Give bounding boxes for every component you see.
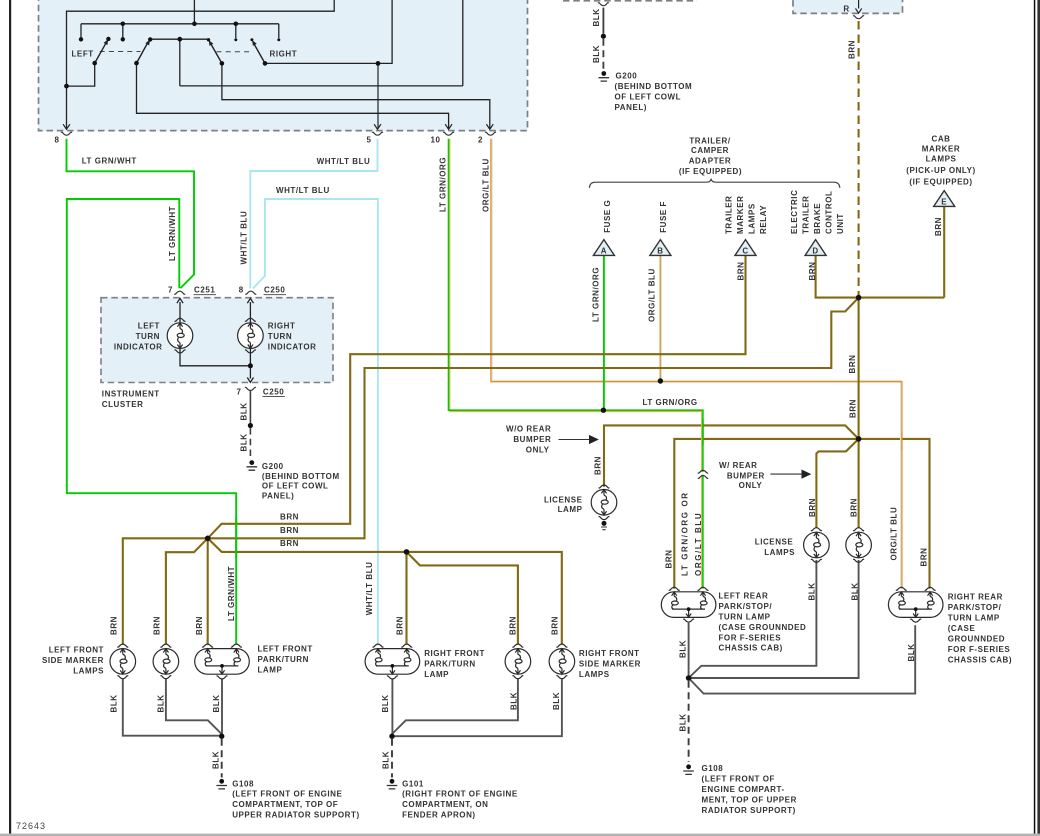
multifunction turn signal switch box (top, cut off) xyxy=(39,0,528,131)
svg-text:INSTRUMENT: INSTRUMENT xyxy=(102,389,160,398)
svg-text:LICENSE: LICENSE xyxy=(544,496,583,505)
switch arm SW1 xyxy=(95,43,106,63)
svg-text:ORG/LT BLU: ORG/LT BLU xyxy=(648,268,657,322)
BRN wire: junction to left front side marker 1 xyxy=(123,538,208,644)
C250 pin 8 connector (cap opening down) xyxy=(245,291,256,294)
BLK dashed to G101 xyxy=(391,739,393,778)
svg-text:E: E xyxy=(941,197,947,206)
svg-text:RIGHT: RIGHT xyxy=(268,322,296,331)
svg-text:ONLY: ONLY xyxy=(526,446,550,455)
svg-text:W/O REAR: W/O REAR xyxy=(506,424,551,433)
svg-text:LT GRN/ORG: LT GRN/ORG xyxy=(439,157,448,212)
svg-text:MARKER: MARKER xyxy=(922,145,960,154)
svg-text:(LEFT FRONT OF ENGINE: (LEFT FRONT OF ENGINE xyxy=(232,790,342,799)
svg-text:ORG/LT BLU: ORG/LT BLU xyxy=(694,512,703,576)
lamp: left front side marker 2 xyxy=(153,644,179,679)
lamp: right front side marker 1 xyxy=(505,644,531,679)
fuse G triangle A xyxy=(593,240,614,256)
svg-text:BRN: BRN xyxy=(551,616,560,635)
svg-text:LT GRN/ORG OR: LT GRN/ORG OR xyxy=(681,491,690,576)
junction dot: G101 xyxy=(389,734,394,739)
electric trailer brake control unit triangle D xyxy=(805,240,826,256)
svg-text:C: C xyxy=(742,246,748,255)
svg-text:RELAY: RELAY xyxy=(759,205,768,234)
svg-text:5: 5 xyxy=(367,136,372,145)
svg-text:ORG/LT BLU: ORG/LT BLU xyxy=(890,507,899,561)
BLK wire: right side marker 1 ground run xyxy=(392,679,518,736)
svg-text:RIGHT FRONT: RIGHT FRONT xyxy=(579,649,640,658)
ground G101 xyxy=(387,779,398,789)
C251 pin 7 connector (cap opening down) xyxy=(174,291,185,294)
svg-text:G200: G200 xyxy=(262,462,284,471)
svg-text:TURN LAMP: TURN LAMP xyxy=(719,613,771,622)
svg-text:(LEFT FRONT OF: (LEFT FRONT OF xyxy=(702,775,775,784)
svg-text:BRN: BRN xyxy=(808,498,817,517)
svg-text:(CASE: (CASE xyxy=(948,624,976,633)
svg-text:G200: G200 xyxy=(616,72,638,81)
svg-text:LAMPS: LAMPS xyxy=(764,548,795,557)
wire: contact bus line B xyxy=(81,0,279,38)
ground G108 left xyxy=(216,779,227,789)
wire: SW1 pivot to pin8 feed xyxy=(67,63,95,86)
svg-text:WHT/LT BLU: WHT/LT BLU xyxy=(276,186,330,195)
ground G200 top xyxy=(599,71,610,81)
BLK dashed to G108 right xyxy=(688,681,690,762)
svg-text:FOR F-SERIES: FOR F-SERIES xyxy=(948,645,1011,654)
svg-text:BRN: BRN xyxy=(280,526,299,535)
svg-text:LT GRN/WHT: LT GRN/WHT xyxy=(227,566,236,621)
svg-text:LAMPS: LAMPS xyxy=(926,155,957,164)
orange/cyan wire pin2 to right rear lamp (ORG/LT BLU) xyxy=(492,139,900,589)
junction dot: LT GRN/ORG tap xyxy=(601,408,606,413)
pivot dots xyxy=(92,61,97,66)
svg-text:BRN: BRN xyxy=(848,355,857,374)
green branch wire to left front park lamp (LT GRN/WHT) xyxy=(67,199,236,644)
svg-text:(BEHIND BOTTOM: (BEHIND BOTTOM xyxy=(615,82,693,91)
rotated wire labels xyxy=(110,8,944,769)
svg-text:BRN: BRN xyxy=(396,616,405,635)
svg-text:TRAILER: TRAILER xyxy=(725,195,734,234)
svg-text:B: B xyxy=(657,246,663,255)
svg-text:LAMPS: LAMPS xyxy=(579,670,610,679)
lamp: license lamps pair right xyxy=(846,528,872,563)
svg-text:(RIGHT FRONT OF ENGINE: (RIGHT FRONT OF ENGINE xyxy=(402,790,518,799)
wire: y39 link between SW2/SW3 contacts xyxy=(150,0,463,86)
junction dot: G108 left xyxy=(219,734,224,739)
G200 drop from cluster C250-7 xyxy=(249,391,251,423)
svg-text:10: 10 xyxy=(431,136,441,145)
svg-text:BRN: BRN xyxy=(934,217,943,236)
svg-text:BRN: BRN xyxy=(849,399,858,418)
green wire pin10 to left rear lamp (LT GRN/ORG) xyxy=(449,139,703,589)
BRN wire: right junction down to right front park/turn lamp xyxy=(405,552,407,645)
svg-text:R: R xyxy=(843,5,849,14)
svg-text:LEFT FRONT: LEFT FRONT xyxy=(258,645,313,654)
svg-text:BLK: BLK xyxy=(679,713,688,731)
w/o rear bumper pointer arrow xyxy=(559,439,591,441)
junction dot: BRN right front xyxy=(404,549,410,555)
svg-text:PARK/STOP/: PARK/STOP/ xyxy=(948,603,1002,612)
svg-text:LT GRN/WHT: LT GRN/WHT xyxy=(82,157,137,166)
svg-text:UNIT: UNIT xyxy=(836,213,845,234)
svg-text:BLK: BLK xyxy=(851,582,860,600)
pin arrowheads at box bottom xyxy=(63,124,70,129)
svg-text:RIGHT REAR: RIGHT REAR xyxy=(948,593,1003,602)
svg-text:LAMP: LAMP xyxy=(258,665,283,674)
pin 8 connector xyxy=(61,132,72,135)
svg-text:GROUNNDED: GROUNNDED xyxy=(948,635,1005,644)
svg-text:LT GRN/ORG: LT GRN/ORG xyxy=(591,267,600,322)
svg-text:BLK: BLK xyxy=(592,8,601,26)
cut-off box bottom edge above G200 xyxy=(563,0,697,2)
svg-text:D: D xyxy=(812,246,818,255)
svg-text:BRN: BRN xyxy=(665,550,674,569)
C251/C250 underlines xyxy=(194,295,286,397)
svg-text:FUSE F: FUSE F xyxy=(659,201,668,233)
svg-text:PARK/TURN: PARK/TURN xyxy=(424,660,475,669)
svg-text:INDICATOR: INDICATOR xyxy=(114,342,163,351)
svg-text:BLK: BLK xyxy=(510,692,519,710)
svg-text:G101: G101 xyxy=(402,779,424,788)
junction dot: J1 xyxy=(856,295,862,301)
svg-text:BRN: BRN xyxy=(850,498,859,517)
svg-text:G108: G108 xyxy=(702,764,724,773)
svg-text:BUMPER: BUMPER xyxy=(727,471,765,480)
svg-text:BLK: BLK xyxy=(157,694,166,712)
BLK dashed to G108 left xyxy=(221,739,223,778)
R relay box (top right, cut off) xyxy=(793,0,903,13)
junction dot: G108 right xyxy=(686,675,692,681)
svg-text:BLK: BLK xyxy=(240,433,249,451)
svg-text:MENT, TOP OF UPPER: MENT, TOP OF UPPER xyxy=(702,795,797,804)
svg-text:W/ REAR: W/ REAR xyxy=(719,461,758,470)
svg-text:8: 8 xyxy=(239,286,244,295)
bus junction dots xyxy=(121,22,126,27)
brace trailer/camper adapter xyxy=(589,179,839,188)
svg-text:7: 7 xyxy=(168,286,173,295)
BLK wire: left rear lamp ground xyxy=(688,623,690,678)
contact dots xyxy=(79,37,83,41)
ground G108 right xyxy=(683,764,694,774)
R box pin connector xyxy=(853,16,864,19)
BRN wire: J2 to left license lamp (w/ rear bumper) xyxy=(816,439,858,528)
svg-text:CLUSTER: CLUSTER xyxy=(102,400,144,409)
svg-text:LEFT: LEFT xyxy=(72,49,94,58)
svg-text:2: 2 xyxy=(478,136,483,145)
instrument cluster internal wires xyxy=(177,298,183,322)
svg-text:BLK: BLK xyxy=(212,694,221,712)
license lamp w/o bumper case ground xyxy=(602,521,607,526)
svg-text:(IF EQUIPPED): (IF EQUIPPED) xyxy=(679,167,742,176)
BRN wire: trailer marker relay C to front lamps junction xyxy=(208,255,746,538)
fuse F triangle B xyxy=(650,240,671,256)
svg-text:TURN LAMP: TURN LAMP xyxy=(948,614,1000,623)
svg-text:BUMPER: BUMPER xyxy=(513,435,551,444)
switch gang dashed links xyxy=(100,51,253,53)
svg-text:7: 7 xyxy=(237,388,242,397)
svg-text:BRN: BRN xyxy=(509,616,518,635)
svg-text:SIDE MARKER: SIDE MARKER xyxy=(579,660,641,669)
svg-text:MARKER: MARKER xyxy=(736,196,745,234)
svg-text:LEFT REAR: LEFT REAR xyxy=(719,592,769,601)
BLK wire: right rear lamp ground run xyxy=(689,625,916,693)
BLK wire: license lamp pair grounds to rear junction xyxy=(689,560,817,678)
page frame xyxy=(9,0,11,834)
svg-text:BLK: BLK xyxy=(381,694,390,712)
svg-text:CHASSIS CAB): CHASSIS CAB) xyxy=(719,644,783,653)
svg-text:LAMPS: LAMPS xyxy=(73,666,104,675)
svg-text:(PICK-UP ONLY): (PICK-UP ONLY) xyxy=(906,166,976,175)
wire: switch feed bus top xyxy=(67,0,335,128)
svg-text:BRN: BRN xyxy=(280,513,299,522)
switch arm SW4 xyxy=(254,44,265,63)
lamp: left turn indicator xyxy=(167,318,193,353)
cab marker lamps triangle E xyxy=(934,191,955,207)
R box internal wire and arrow xyxy=(856,0,862,13)
inline connector on rear feed wire xyxy=(700,472,707,475)
fuse G wire down (LT GRN/ORG) xyxy=(603,255,605,410)
svg-text:BRN: BRN xyxy=(737,262,746,281)
green overlay where rear feed crosses BRN lines xyxy=(701,419,703,445)
BRN wire: J1 jog down to front lamps junction xyxy=(208,298,859,539)
wire: SW4 pivot to pin 5 xyxy=(265,0,392,63)
BRN wire: J2 down to right license lamp xyxy=(858,439,860,528)
pin connector arcs (cup opening up) xyxy=(61,3,864,391)
w/ rear bumper pointer arrow xyxy=(770,473,802,475)
svg-text:FUSE G: FUSE G xyxy=(603,200,612,233)
svg-text:ENGINE COMPART-: ENGINE COMPART- xyxy=(702,785,785,794)
svg-text:LAMPS: LAMPS xyxy=(748,203,757,234)
svg-text:72643: 72643 xyxy=(16,821,46,831)
junction dot: J2 xyxy=(856,436,862,442)
svg-text:WHT/LT BLU: WHT/LT BLU xyxy=(365,562,374,616)
svg-text:LICENSE: LICENSE xyxy=(755,537,794,546)
svg-text:LAMP: LAMP xyxy=(424,670,449,679)
svg-text:(CASE GROUNNDED: (CASE GROUNNDED xyxy=(719,623,807,632)
BLK wire: left side marker 1 ground run xyxy=(123,679,222,736)
svg-text:BLK: BLK xyxy=(808,582,817,600)
BRN wire: junction to right front lamps xyxy=(208,538,562,644)
BRN wire: junction down to left front park/turn lamp xyxy=(207,538,209,644)
lamp: license lamps pair left xyxy=(804,528,830,563)
svg-text:A: A xyxy=(601,246,607,255)
lamp: license lamp w/o rear bumper xyxy=(591,485,617,520)
svg-text:G108: G108 xyxy=(232,779,254,788)
svg-text:BRN: BRN xyxy=(110,616,119,635)
BRN wire: J2 to license lamp (w/o rear bumper) xyxy=(604,425,859,487)
BLK wire: left front park/turn ground xyxy=(221,679,223,736)
svg-text:8: 8 xyxy=(55,136,60,145)
BRN wire: trailer D and cab marker E to junction J1 xyxy=(816,207,945,298)
BRN wire: right junction to right front side marker 1 xyxy=(407,552,518,645)
svg-text:TURN: TURN xyxy=(136,332,160,341)
svg-text:BRN: BRN xyxy=(195,616,204,635)
trailer marker lamps relay triangle C xyxy=(735,240,756,256)
svg-text:PANEL): PANEL) xyxy=(615,103,647,112)
wire: SW2 pivot to pin 10 xyxy=(137,63,449,128)
svg-text:RIGHT: RIGHT xyxy=(270,49,298,58)
svg-text:CAB: CAB xyxy=(932,135,951,144)
pin 2 connector xyxy=(485,132,496,135)
pale orange underlay of dual-color rear feed xyxy=(450,139,702,589)
svg-text:LAMP: LAMP xyxy=(558,505,583,514)
svg-text:CONTROL: CONTROL xyxy=(825,191,834,234)
svg-text:BRN: BRN xyxy=(280,539,299,548)
svg-text:BLK: BLK xyxy=(240,402,249,420)
svg-text:LEFT: LEFT xyxy=(138,322,160,331)
BLK wire: right side marker 2 ground run xyxy=(392,679,562,736)
pin 10 connector xyxy=(443,132,454,135)
svg-text:COMPARTMENT, ON: COMPARTMENT, ON xyxy=(402,800,488,809)
BRN wire: J2 to left rear lamp xyxy=(674,439,858,589)
svg-text:SIDE MARKER: SIDE MARKER xyxy=(42,656,104,665)
cyan branch wire to right front park lamp (WHT/LT BLU) xyxy=(253,199,378,644)
junction dot: ORG/LT BLU tap xyxy=(658,378,663,383)
svg-text:LT GRN/ORG: LT GRN/ORG xyxy=(643,398,698,407)
svg-text:BLK: BLK xyxy=(552,692,561,710)
cyan wire pin5 to C250-8 (WHT/LT BLU) xyxy=(250,139,377,288)
svg-text:TURN: TURN xyxy=(268,332,292,341)
svg-text:BRN: BRN xyxy=(153,616,162,635)
C250 pin 7 exit connector xyxy=(245,387,256,390)
lamp: right front side marker 2 xyxy=(549,644,575,679)
switch arm SW2 xyxy=(137,44,148,64)
svg-text:OF LEFT COWL: OF LEFT COWL xyxy=(262,482,329,491)
BRN dashed wire from R relay xyxy=(858,21,860,296)
svg-text:BLK: BLK xyxy=(382,751,391,769)
svg-text:BLK: BLK xyxy=(679,640,688,658)
svg-text:FOR F-SERIES: FOR F-SERIES xyxy=(719,633,782,642)
svg-text:FENDER APRON): FENDER APRON) xyxy=(402,811,476,820)
G200 drop from cut box (top middle) xyxy=(602,8,604,34)
svg-text:WHT/LT BLU: WHT/LT BLU xyxy=(240,211,249,265)
BLK wire: right front park/turn ground xyxy=(391,679,393,736)
svg-text:OF LEFT COWL: OF LEFT COWL xyxy=(615,93,682,102)
lamp: left rear park/stop/turn xyxy=(661,587,716,622)
svg-text:LEFT FRONT: LEFT FRONT xyxy=(49,646,104,655)
fuse F wire down (ORG/LT BLU) xyxy=(661,255,663,380)
lamp: right front park/turn xyxy=(365,644,420,679)
svg-text:PANEL): PANEL) xyxy=(262,491,294,500)
svg-text:BRN: BRN xyxy=(848,40,857,59)
green wire pin8 to C251-7 (LT GRN/WHT) xyxy=(67,139,195,289)
G200 harness connector top xyxy=(598,3,609,6)
lamp: right rear park/stop/turn xyxy=(888,587,943,622)
svg-text:(IF EQUIPPED): (IF EQUIPPED) xyxy=(909,177,972,186)
svg-text:UPPER RADIATOR SUPPORT): UPPER RADIATOR SUPPORT) xyxy=(232,811,359,820)
svg-text:CHASSIS CAB): CHASSIS CAB) xyxy=(948,656,1012,665)
lamp: left front park/turn xyxy=(195,644,250,679)
svg-text:BLK: BLK xyxy=(907,643,916,661)
pin 5 connector xyxy=(372,132,383,135)
instrument cluster box xyxy=(101,298,333,383)
svg-text:TRAILER: TRAILER xyxy=(802,195,811,234)
svg-text:LT GRN/WHT: LT GRN/WHT xyxy=(168,206,177,261)
svg-text:ELECTRIC: ELECTRIC xyxy=(790,190,799,234)
svg-text:C251: C251 xyxy=(194,286,215,295)
svg-text:BLK: BLK xyxy=(110,694,119,712)
BLK wire: left side marker 2 ground run xyxy=(166,679,222,736)
svg-text:PARK/TURN: PARK/TURN xyxy=(258,655,309,664)
svg-text:C250: C250 xyxy=(263,388,284,397)
svg-text:ORG/LT BLU: ORG/LT BLU xyxy=(482,158,491,212)
svg-text:RIGHT FRONT: RIGHT FRONT xyxy=(424,649,485,658)
svg-text:PARK/STOP/: PARK/STOP/ xyxy=(719,602,773,611)
BRN wire: J1 down to J2 xyxy=(858,298,860,439)
ground G200 left xyxy=(247,460,258,470)
svg-text:C250: C250 xyxy=(264,286,285,295)
svg-text:(BEHIND BOTTOM: (BEHIND BOTTOM xyxy=(262,472,340,481)
switch arm SW3 xyxy=(211,44,222,63)
junction dot: BRN front lamps xyxy=(205,536,211,542)
svg-text:RADIATOR SUPPORT): RADIATOR SUPPORT) xyxy=(702,806,796,815)
svg-text:BRN: BRN xyxy=(920,548,929,567)
svg-text:TRAILER/: TRAILER/ xyxy=(689,136,731,145)
svg-text:ONLY: ONLY xyxy=(739,481,763,490)
svg-text:BRN: BRN xyxy=(594,456,603,475)
svg-text:ADAPTER: ADAPTER xyxy=(689,157,732,166)
BRN wire: J2 to right rear lamp xyxy=(859,439,930,589)
lamp: left front side marker 1 xyxy=(110,644,136,679)
svg-text:CAMPER: CAMPER xyxy=(691,146,729,155)
lamp: right turn indicator xyxy=(238,318,264,353)
svg-text:WHT/LT BLU: WHT/LT BLU xyxy=(317,157,371,166)
svg-text:COMPARTMENT, TOP OF: COMPARTMENT, TOP OF xyxy=(232,800,338,809)
wire: SW3 pivot to pin 2 xyxy=(222,63,490,128)
BRN wire: junction to left front side marker 2 xyxy=(166,538,208,644)
svg-text:INDICATOR: INDICATOR xyxy=(268,342,317,351)
svg-text:BLK: BLK xyxy=(212,751,221,769)
svg-text:BLK: BLK xyxy=(592,45,601,63)
svg-text:BRN: BRN xyxy=(808,262,817,281)
svg-text:BRAKE: BRAKE xyxy=(813,203,822,234)
